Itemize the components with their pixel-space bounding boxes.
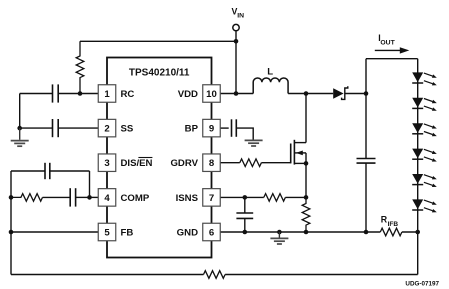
op-amp U1 TPS40210/11 body [107,58,212,258]
wire C3 to ground bend [236,128,253,140]
wire output rail upper [365,59,367,159]
svg-text:GND: GND [177,228,198,239]
node junction comp series left [9,195,14,200]
wire C2 to left rail [20,127,53,129]
svg-text:6: 6 [209,228,214,239]
pin 9 box [203,119,221,137]
LED D2 [412,98,423,108]
pin 2 box [98,119,116,137]
svg-text:10: 10 [206,89,217,100]
pin 10 box [203,85,221,103]
node junction C6/gnd [243,230,248,235]
wire top rail from R1 to VIN node [80,40,236,42]
svg-text:2: 2 [104,124,109,135]
resistor R4 gate [240,159,262,167]
svg-text:TPS40210/11: TPS40210/11 [129,68,190,79]
svg-text:5: 5 [104,228,110,239]
svg-text:ISNS: ISNS [176,193,199,204]
LED D4 [412,149,423,159]
svg-text:RC: RC [121,89,135,100]
wire BP pin9 to cap C3 [220,127,229,129]
ground G2 [245,139,263,141]
wire bottom rail up to LED return [417,232,419,275]
transistor Q1 body arrow stub [294,152,306,154]
wire R5 to source node [285,196,306,198]
pin 1 box [98,85,116,103]
LED D1 [412,72,423,82]
diode D1 schottky [333,88,343,99]
wire LED string vertical [417,59,419,232]
wire left vertical RC-SS [19,94,21,129]
ground G1 [11,140,29,142]
wire SS pin2 to cap C2 [58,127,98,129]
node junction Cout/gnd [364,230,369,235]
node junction ISNS filter [243,195,248,200]
wire RIFB to LED return [402,231,418,233]
ground G3 stem [278,232,280,238]
wire COMP loop top branch right [50,170,90,172]
svg-text:3: 3 [104,158,109,169]
power VIN terminal circle [233,24,239,30]
capacitor C7 output [357,158,376,160]
pin 5 box [98,223,116,241]
transistor Q1 gate bar [290,144,292,164]
wire IOUT arrow [375,49,402,51]
wire R2 to C5comp [43,196,71,198]
wire VIN stem down to VDD rail [235,31,237,94]
node junction left rail/ground [17,126,22,131]
wire output top to LED string [366,58,418,60]
svg-text:IFB: IFB [388,221,399,228]
svg-text:FB: FB [121,228,134,239]
LED D5 [412,174,423,184]
capacitor C6 isns filter lower stem [244,218,246,232]
pin 3 box [98,154,116,172]
wire FB pin5 to left rail [11,231,98,233]
svg-text:DIS/EN: DIS/EN [121,158,153,169]
wire VDD pin10 to VIN node [220,93,236,95]
svg-text:7: 7 [209,193,214,204]
svg-text:8: 8 [209,158,215,169]
node junction gnd symbol [277,230,282,235]
transistor Q1 body arrow [296,151,303,156]
node junction FB left [9,230,14,235]
wire into COMP pin4 [90,196,99,198]
wire ISNS pin7 to R5 [220,196,264,198]
wire R4 to Q1 gate [261,162,290,164]
resistor R1 top-left [76,41,84,93]
svg-text:VDD: VDD [178,89,198,100]
pin 7 box [203,189,221,207]
node junction R6/gnd [304,230,309,235]
svg-text:COMP: COMP [121,193,150,204]
wire Q1 source vertical [305,153,307,198]
pin 6 box [203,223,221,241]
transistor Q1 drain stub [294,142,306,144]
wire COMP loop right vertical [89,171,91,197]
wire output rail lower [365,163,367,232]
capacitor C6 isns filter [236,212,253,214]
transistor Q1 channel bar [293,140,295,165]
capacitor C3 bypass [231,119,233,137]
capacitor C2 on SS [52,119,54,137]
node junction VIN/top rail [234,39,239,44]
svg-text:1: 1 [104,89,110,100]
node junction source/Risns [304,195,309,200]
LED D3 [412,123,423,133]
wire GND pin6 rail [220,231,380,233]
node junction at COMP pin [87,195,92,200]
svg-text:4: 4 [104,193,110,204]
wire switch node down to Q1 drain [305,94,307,143]
resistor R3 bottom feedback [204,271,226,279]
wire bottom rail left of R3 [11,274,204,276]
node junction switch node [304,91,309,96]
wire C5comp to COMP node [76,196,90,198]
resistor R2 comp series [11,194,43,202]
wire RC pin1 to cap C1 [58,93,98,95]
wire diode cathode to output node [345,93,366,95]
svg-text:L: L [267,66,273,77]
pin 8 box [203,154,221,172]
capacitor C4 comp upper [44,163,46,179]
node junction R1/RC wire [78,91,83,96]
capacitor C6 isns filter upper stem [244,197,246,212]
svg-text:9: 9 [209,124,214,135]
ground G1 stem [19,128,21,140]
node junction VDD rail [234,91,239,96]
ground G3 [270,237,288,239]
LED D6 [412,199,423,209]
svg-text:IN: IN [237,13,244,20]
resistor R7 RIFB [380,228,402,236]
pin 4 box [98,189,116,207]
svg-text:OUT: OUT [380,40,395,47]
wire VIN node to inductor [236,93,253,95]
wire COMP loop top branch left [11,170,45,172]
wire C1 to left rail [20,93,53,95]
wire left FB rail vertical [10,171,12,275]
wire inductor to diode anode [288,93,333,95]
wire GDRV pin8 to R4 [220,162,240,164]
resistor R6 current sense [302,197,310,232]
node junction output rail top [364,91,369,96]
capacitor C5 comp series [69,188,71,206]
node junction LED return [415,230,420,235]
node junction Q1 source/body [304,161,309,166]
transistor Q1 source stub [294,162,306,164]
capacitor C1 on RC [52,84,54,102]
svg-text:GDRV: GDRV [170,158,198,169]
wire bottom rail right of R3 [225,274,418,276]
svg-text:BP: BP [185,124,199,135]
resistor R5 isns filter [264,194,286,202]
inductor L [253,78,288,94]
svg-text:UDG-07197: UDG-07197 [405,281,439,288]
svg-text:SS: SS [121,124,134,135]
